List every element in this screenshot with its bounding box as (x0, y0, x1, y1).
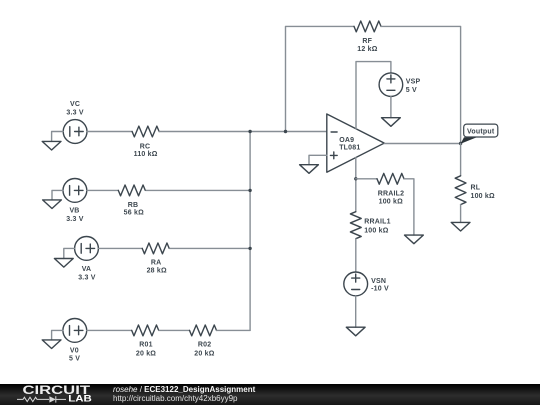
label V0 5 V (69, 347, 80, 362)
voltage source VSN (344, 272, 368, 296)
label VSN -10 V (371, 278, 389, 293)
wire VSN to ground (355, 296, 357, 327)
wire VC to ground (52, 132, 64, 142)
svg-text:Voutput: Voutput (467, 129, 495, 136)
junction bus-VB row (248, 189, 251, 192)
label RRAIL1 100 k (364, 219, 390, 235)
resistor RA (142, 243, 169, 254)
logo CircuitLab (0, 384, 110, 405)
ground at VSP (382, 118, 401, 127)
label R01 20 k (136, 341, 156, 357)
op-amp OA9 (327, 114, 385, 172)
wire feedback up from inverting node (286, 26, 355, 131)
wire RC to op-amp inverting input (159, 131, 327, 133)
svg-text:RF: RF (362, 38, 372, 45)
junction feedback node (284, 130, 287, 133)
ground at RRAIL2 (405, 235, 424, 244)
voltage source V0 (63, 319, 87, 343)
resistor R01 (132, 325, 159, 336)
svg-text:TL081: TL081 (339, 145, 360, 152)
wire summing bus vertical (249, 132, 251, 331)
label Voutput (467, 129, 495, 136)
label VSP 5 V (406, 78, 421, 94)
ground at non-inverting input (300, 165, 319, 174)
wire V0 to R01 (87, 329, 132, 331)
resistor R02 (190, 325, 217, 336)
voltage source VB (63, 179, 87, 203)
wire VSP to ground (390, 97, 392, 118)
wire non-inverting input to ground (309, 155, 327, 164)
node flag Voutput (461, 124, 498, 144)
svg-text:LAB: LAB (68, 393, 92, 404)
footer title text (113, 386, 255, 395)
resistor RF (354, 21, 381, 32)
label RC 110 k (134, 144, 158, 159)
ground at VA (54, 259, 73, 268)
svg-text:20 kΩ: 20 kΩ (194, 351, 214, 358)
wire op-amp output (384, 143, 460, 145)
resistor RC (132, 126, 159, 137)
junction rail node (354, 177, 357, 180)
wire R02 to bus corner (216, 329, 250, 331)
label VB 3.3 V (66, 207, 83, 223)
ground at VB (43, 200, 62, 209)
svg-text:100 kΩ: 100 kΩ (364, 228, 389, 235)
svg-text:RC: RC (140, 144, 151, 151)
label RA 28 k (147, 259, 167, 274)
svg-text:V0: V0 (70, 347, 79, 354)
svg-text:VA: VA (82, 266, 92, 273)
label RF 12 k (357, 38, 377, 53)
wire RB to bus (146, 189, 250, 191)
svg-text:RRAIL1: RRAIL1 (364, 219, 390, 226)
wire op-amp V+ pin to VSP (356, 62, 391, 129)
svg-text:VSN: VSN (371, 278, 386, 285)
svg-text:5 V: 5 V (69, 356, 80, 363)
junction output node (459, 142, 462, 145)
svg-text:RA: RA (151, 259, 162, 266)
wire V0 to ground (52, 330, 63, 340)
label RB 56 k (124, 202, 144, 216)
label VA 3.3 V (78, 266, 95, 281)
svg-text:VC: VC (70, 101, 80, 108)
svg-text:12 kΩ: 12 kΩ (357, 46, 377, 53)
voltage source VSP (379, 73, 403, 97)
wire VA to RA (98, 247, 142, 249)
voltage source VC (63, 120, 87, 144)
wire rail node to RRAIL2 (356, 178, 377, 180)
svg-text:28 kΩ: 28 kΩ (147, 267, 167, 274)
svg-text:56 kΩ: 56 kΩ (124, 210, 144, 217)
junction bus-VA row (248, 247, 251, 250)
wire RF to output node (381, 26, 461, 143)
junction bus-VC row (248, 130, 251, 133)
svg-text:5 V: 5 V (406, 87, 417, 94)
label OA9 TL081 (339, 137, 360, 152)
wire RRAIL2 to ground (404, 179, 414, 235)
wire RL to ground (460, 205, 462, 223)
svg-text:VB: VB (69, 207, 79, 214)
ground at VC (42, 141, 61, 150)
ground at VSN (346, 327, 365, 336)
wire RA to bus (170, 247, 250, 249)
wire op-amp V- pin down (355, 158, 357, 212)
ground at V0 (42, 340, 61, 349)
svg-text:100 kΩ: 100 kΩ (379, 199, 404, 206)
svg-text:20 kΩ: 20 kΩ (136, 351, 156, 358)
svg-text:R02: R02 (198, 341, 211, 348)
resistor RL (455, 176, 466, 205)
svg-text:R01: R01 (139, 341, 152, 348)
resistor RRAIL2 (377, 173, 404, 184)
svg-text:110 kΩ: 110 kΩ (134, 151, 158, 158)
svg-text:3.3 V: 3.3 V (78, 274, 95, 281)
svg-text:OA9: OA9 (339, 137, 354, 144)
label RRAIL2 100 k (378, 190, 404, 205)
wire RRAIL1 to VSN (355, 239, 357, 272)
label VC 3.3 V (66, 101, 83, 116)
svg-text:RL: RL (471, 184, 481, 191)
svg-text:RB: RB (128, 202, 139, 209)
wire VB to ground (52, 190, 63, 200)
voltage source VA (75, 237, 99, 261)
footer url text (113, 395, 238, 404)
wire VC to RC (87, 131, 132, 133)
wire VA to ground (64, 248, 75, 258)
svg-text:3.3 V: 3.3 V (66, 109, 83, 116)
wire output to RL (460, 144, 462, 176)
svg-text:3.3 V: 3.3 V (66, 216, 83, 223)
resistor RB (118, 185, 145, 196)
resistor RRAIL1 (350, 212, 361, 239)
ground at RL (451, 222, 470, 231)
wire VB to RB (87, 189, 119, 191)
svg-text:VSP: VSP (406, 78, 421, 85)
label RL 100 k (471, 184, 496, 200)
wire R01 to R02 (159, 329, 190, 331)
svg-text:-10 V: -10 V (371, 286, 389, 293)
footer bar (0, 384, 540, 405)
label R02 20 k (194, 341, 214, 357)
svg-text:RRAIL2: RRAIL2 (378, 190, 404, 197)
svg-text:100 kΩ: 100 kΩ (471, 193, 496, 200)
